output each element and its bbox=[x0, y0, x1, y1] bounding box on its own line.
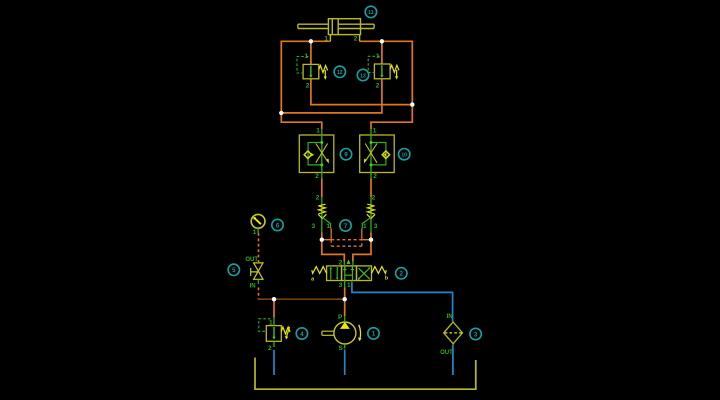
junction node: port2 bus / valve13 inlet bbox=[380, 39, 384, 43]
wire valve9 to check valve L bbox=[321, 179, 323, 198]
junction node: port1 bus / valve12 inlet bbox=[309, 39, 313, 43]
svg-text:1: 1 bbox=[347, 282, 351, 289]
junction node: left check line / pilot tap bbox=[320, 238, 324, 242]
wire pump S tank drop bbox=[344, 350, 346, 376]
wire gauge to shutoff dashed bbox=[258, 233, 260, 262]
DCV 4/3 valve 2 bbox=[311, 259, 389, 288]
junction node: right check line / pilot tap bbox=[369, 238, 373, 242]
tank bbox=[255, 358, 476, 390]
relief valve 13 bbox=[368, 53, 399, 90]
balloon 10 (flow control) bbox=[399, 149, 410, 160]
cylinder U1 (11) double rod bbox=[298, 19, 374, 42]
svg-text:1: 1 bbox=[324, 35, 328, 42]
svg-text:1: 1 bbox=[269, 320, 273, 327]
svg-text:2: 2 bbox=[316, 195, 320, 202]
svg-text:2: 2 bbox=[354, 35, 358, 42]
wire pilot crossover dashed bbox=[331, 239, 362, 241]
wire port2 bus (cyl port2 to right vertical down to flow valve 10) bbox=[360, 41, 413, 129]
balloon 6 (gauge) bbox=[272, 219, 283, 230]
wire port1 bus (cyl port1 to left vertical down to flow valve 9) bbox=[281, 41, 330, 129]
port stubs bbox=[344, 262, 353, 288]
svg-text:2: 2 bbox=[373, 173, 377, 180]
wire pilot dashed loop below bbox=[331, 240, 362, 247]
svg-text:1: 1 bbox=[304, 53, 308, 60]
junction node: right vertical / valve12 outlet bbox=[410, 102, 414, 106]
junction node: left vertical / valve13 outlet bbox=[279, 111, 283, 115]
svg-text:10: 10 bbox=[401, 153, 407, 159]
svg-text:2: 2 bbox=[372, 195, 376, 202]
shut-off valve 5 bbox=[245, 257, 263, 289]
pump 1 bbox=[322, 314, 362, 352]
svg-text:2: 2 bbox=[315, 173, 319, 180]
wire filter out down bbox=[452, 345, 454, 376]
svg-text:P: P bbox=[338, 314, 343, 321]
svg-text:2: 2 bbox=[339, 259, 343, 266]
junction node: pump pressure line bbox=[343, 297, 347, 301]
pilot check valve L (of pair 7) bbox=[311, 195, 330, 233]
balloon 4 (relief valve) bbox=[296, 328, 307, 339]
svg-text:2: 2 bbox=[376, 83, 380, 90]
left spring bbox=[312, 267, 327, 274]
left box arrows bbox=[330, 268, 332, 280]
wire pilot stub R solid bbox=[361, 229, 363, 240]
relief valve 12 bbox=[297, 53, 328, 89]
svg-text:3: 3 bbox=[339, 282, 343, 289]
svg-text:S: S bbox=[338, 345, 343, 352]
center box blocked H bbox=[343, 266, 354, 269]
svg-text:13: 13 bbox=[360, 73, 366, 79]
wire valve13 inlet branch bbox=[381, 41, 383, 64]
balloon 12 (relief valve) bbox=[334, 66, 345, 77]
svg-text:2: 2 bbox=[268, 345, 272, 352]
svg-text:OUT: OUT bbox=[245, 257, 258, 263]
balloon 5 (shut-off valve) bbox=[228, 264, 239, 275]
wire DCV port1 to filter (tank line) bbox=[352, 284, 453, 322]
right box crossed arrows bbox=[358, 268, 370, 279]
svg-text:1: 1 bbox=[316, 127, 320, 134]
wire valve10 to check valve R bbox=[370, 179, 372, 198]
svg-text:1: 1 bbox=[326, 223, 330, 230]
balloon 13 (relief valve) bbox=[357, 69, 368, 80]
balloon 11 (cylinder) bbox=[365, 6, 376, 17]
svg-text:3: 3 bbox=[311, 223, 315, 230]
wire check R to DCV port4 bbox=[353, 232, 371, 261]
svg-text:1: 1 bbox=[363, 223, 367, 230]
balloon 7 (pilot check pair) bbox=[340, 220, 351, 231]
svg-text:1: 1 bbox=[373, 127, 377, 134]
right spring bbox=[372, 267, 387, 274]
svg-text:12: 12 bbox=[337, 70, 343, 76]
wire valve13 outlet to left vertical bbox=[281, 79, 382, 113]
filter 3 bbox=[440, 314, 462, 356]
wire valve12 outlet to right vertical bbox=[311, 79, 412, 105]
wire valve12 inlet branch bbox=[310, 41, 312, 64]
balloon 9 (flow control) bbox=[340, 149, 351, 160]
relief valve 4 bbox=[259, 318, 290, 353]
wire pilot crossover solid ends bbox=[322, 239, 371, 241]
pilot check valve R (of pair 7) bbox=[362, 195, 377, 233]
svg-text:2: 2 bbox=[306, 83, 310, 90]
wire shutoff to junction dashed bbox=[258, 288, 260, 300]
svg-text:3: 3 bbox=[374, 223, 378, 230]
svg-text:IN: IN bbox=[250, 284, 256, 290]
balloon 1 (pump) bbox=[368, 328, 379, 339]
wire relief4 riser bbox=[273, 299, 275, 317]
balloon 2 (directional valve) bbox=[396, 268, 407, 279]
flow control valve 9 bbox=[299, 127, 334, 180]
junction node: relief4 branch bbox=[272, 297, 276, 301]
pressure gauge 6 bbox=[251, 214, 265, 236]
wire check L to DCV port2 bbox=[322, 232, 345, 261]
balloon 3 (filter) bbox=[470, 328, 481, 339]
flow control valve 10 bbox=[360, 127, 395, 180]
svg-text:OUT: OUT bbox=[440, 350, 453, 356]
svg-text:11: 11 bbox=[368, 10, 374, 16]
svg-text:1: 1 bbox=[376, 53, 380, 60]
svg-text:1: 1 bbox=[253, 229, 257, 236]
svg-text:IN: IN bbox=[447, 314, 453, 320]
wire pilot stub L solid bbox=[330, 229, 332, 240]
wire relief4 tank drop bbox=[273, 350, 275, 375]
wire gauge line horizontal (dark) bbox=[259, 298, 345, 300]
wire DCV port3 to pump P bbox=[344, 288, 346, 317]
